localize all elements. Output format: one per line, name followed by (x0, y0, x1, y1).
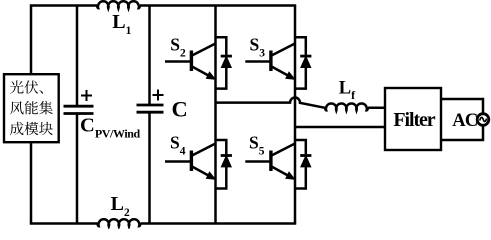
svg-text:C: C (172, 96, 188, 121)
diode D4 (216, 140, 232, 189)
svg-text:Lf: Lf (339, 78, 356, 102)
plus sign CPV/Wind (81, 90, 92, 101)
svg-text:S2: S2 (170, 34, 186, 59)
wire top rail right segment (140, 4, 296, 7)
capacitor CPV/Wind plates (64, 106, 94, 113)
diode D3 (295, 37, 311, 88)
svg-text:S5: S5 (249, 133, 265, 158)
svg-text:L2: L2 (111, 193, 130, 219)
inductor L1 (97, 1, 140, 8)
AC source sine (480, 117, 487, 121)
svg-text:CPV/Wind: CPV/Wind (80, 114, 141, 140)
transistor Q S2 (165, 44, 216, 80)
inductor Lf (325, 103, 368, 110)
transistor Q S5 (245, 144, 295, 180)
wire AC loop top (441, 99, 483, 114)
wire top rail left segment (31, 6, 97, 75)
wire left vertical bottom (30, 142, 33, 224)
svg-text:S3: S3 (250, 34, 266, 59)
box PV/Wind module (4, 74, 59, 142)
wire Lf to filter (368, 107, 385, 110)
diode D2 (216, 37, 232, 88)
svg-text:S4: S4 (170, 133, 186, 158)
wire bottom rail left segment (30, 222, 98, 225)
inductor L2 (98, 219, 141, 226)
transistor Q S4 (165, 144, 216, 180)
transistor Q S3 (245, 44, 295, 80)
capacitor CPV/Wind branch wires (76, 6, 79, 107)
svg-text:Filter: Filter (393, 109, 435, 131)
wire output lower (295, 126, 385, 129)
wire output upper with hop over right leg (216, 98, 326, 108)
wire right bridge leg (294, 6, 297, 224)
wire bottom rail right segment (141, 222, 297, 225)
AC source circle (477, 114, 489, 126)
wire left bridge leg (214, 6, 217, 224)
wire AC loop bottom (441, 125, 483, 140)
capacitor C plates (137, 105, 164, 112)
box Filter (385, 88, 441, 150)
box PV/Wind module text (10, 80, 53, 135)
diode D5 (295, 140, 311, 189)
plus sign C (153, 90, 164, 101)
svg-text:AC: AC (452, 111, 477, 131)
svg-text:L1: L1 (112, 11, 131, 37)
capacitor C branch wires (148, 6, 151, 106)
